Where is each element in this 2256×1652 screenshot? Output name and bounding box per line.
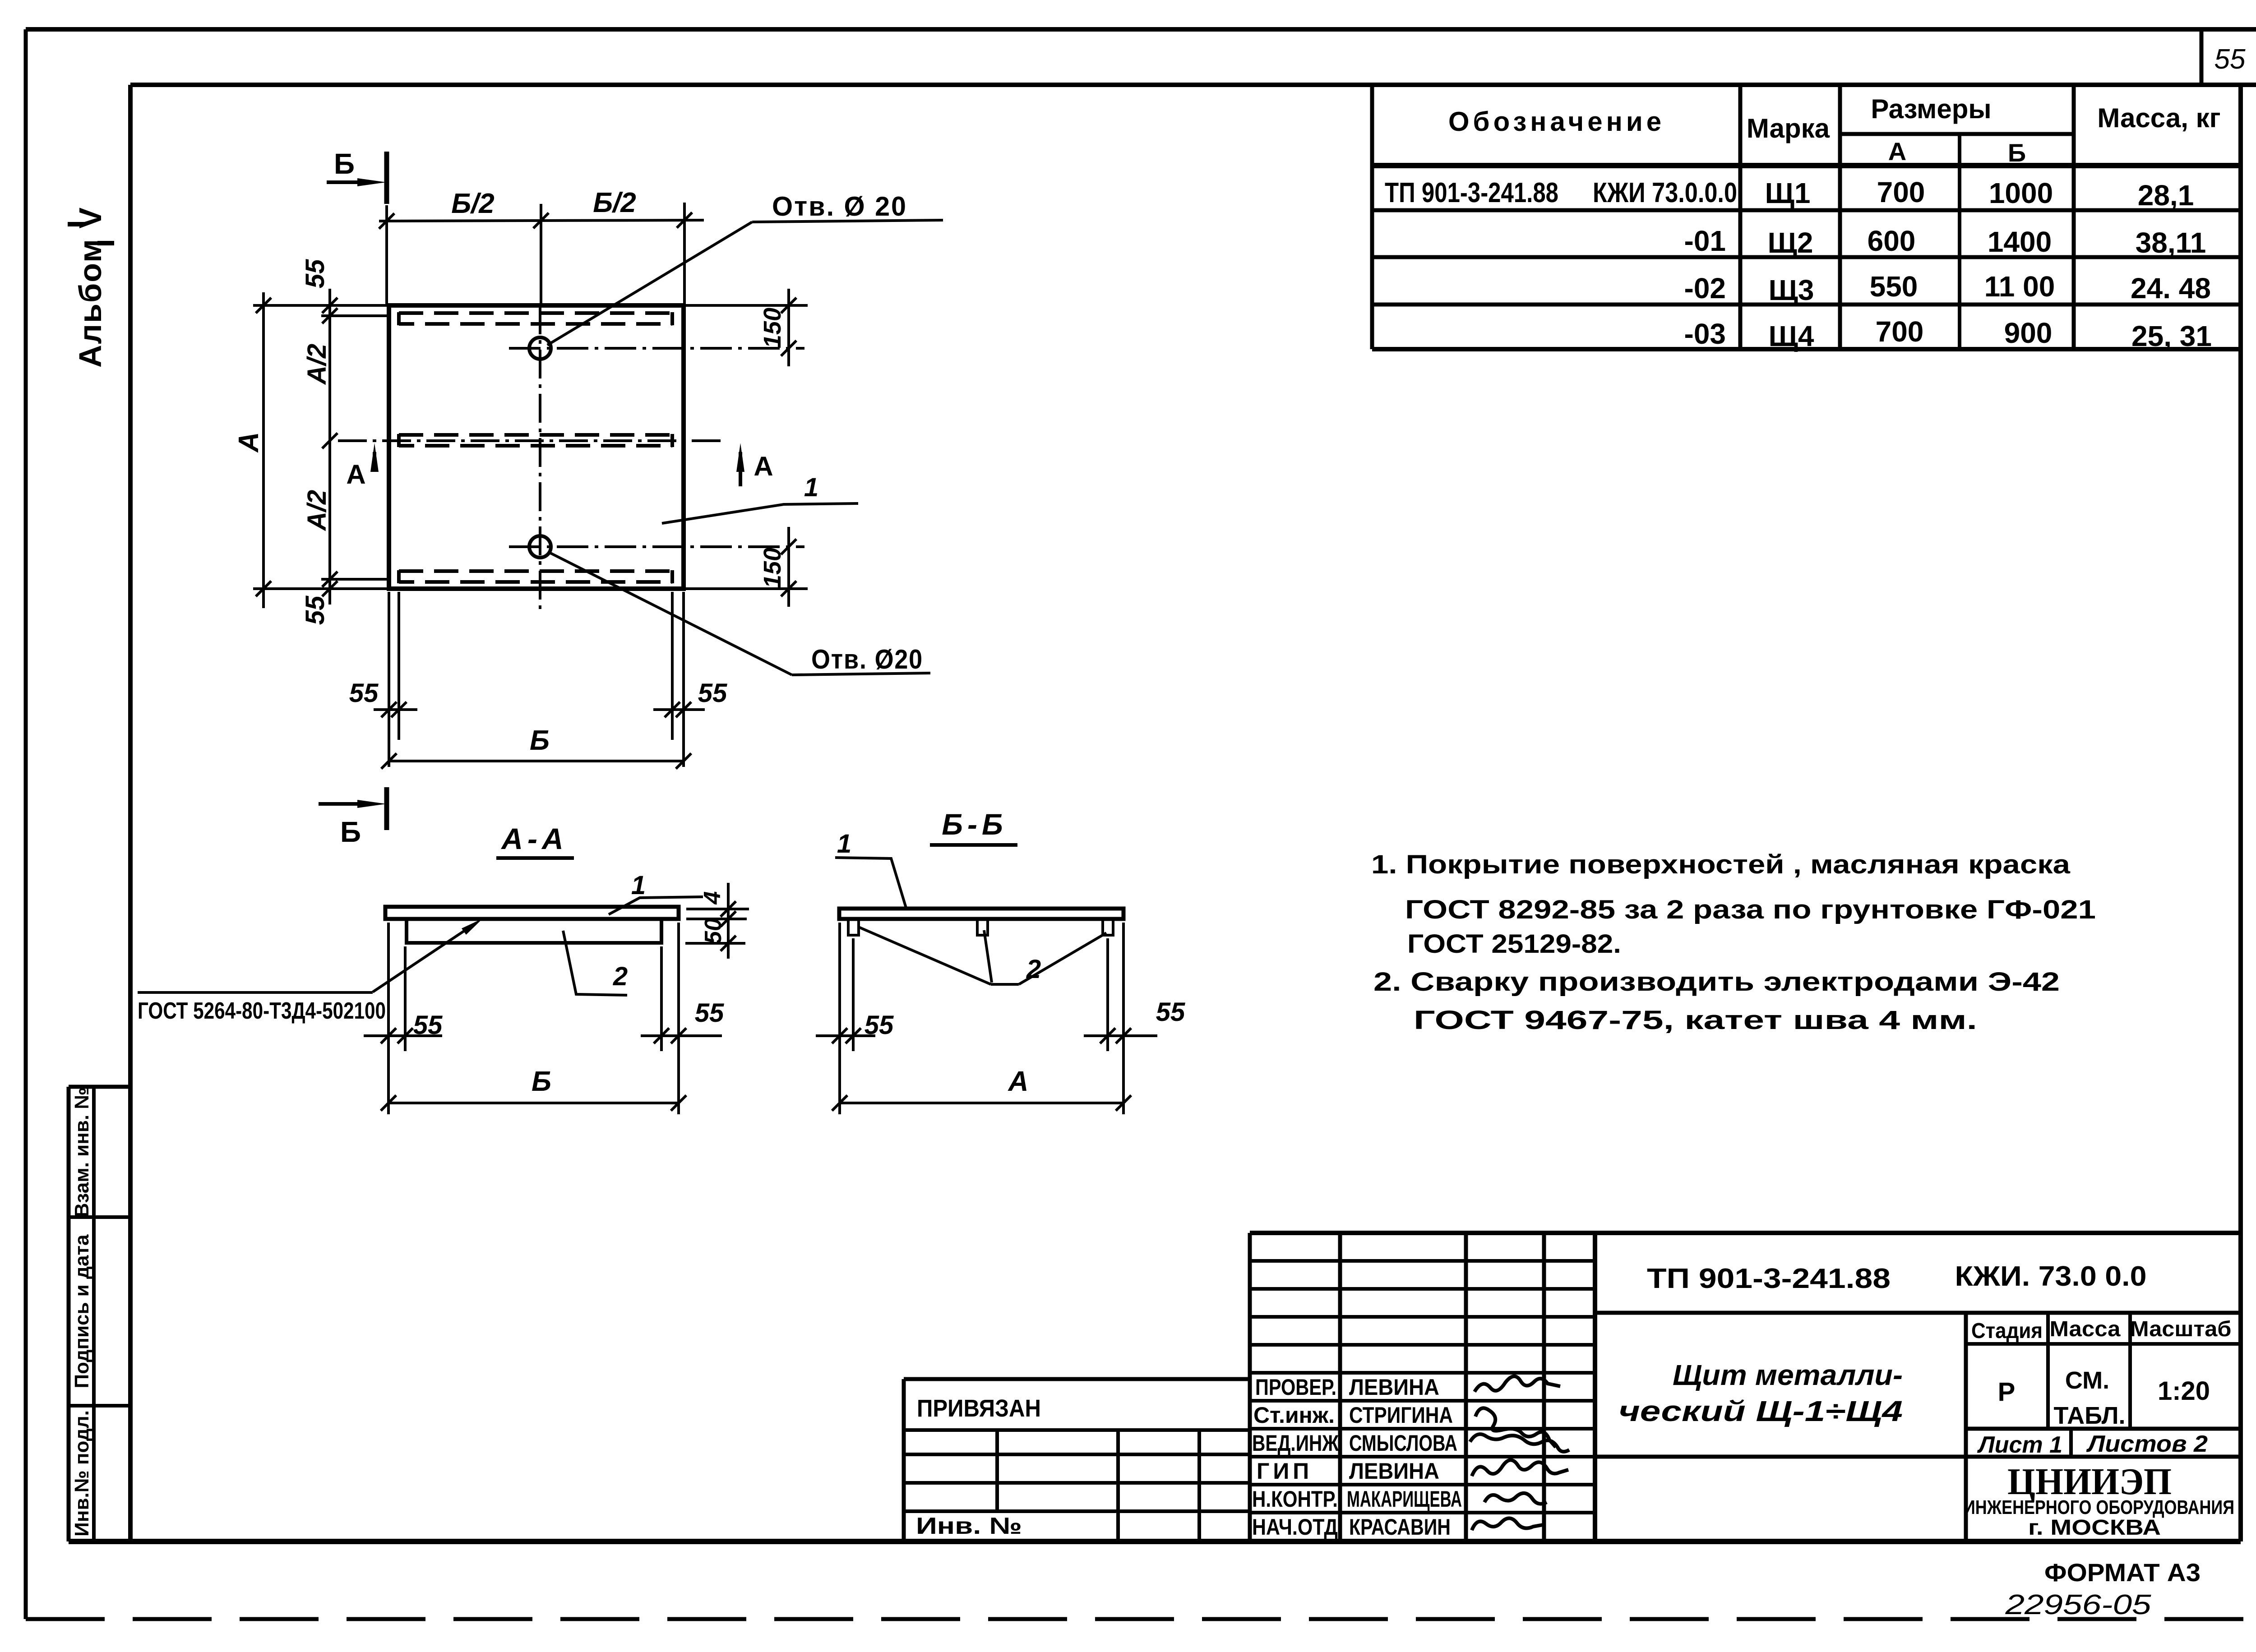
section marker Б top	[384, 152, 389, 204]
ПРИВЯЗАН row line 2	[904, 1453, 1250, 1456]
svg-text:ПРИВЯЗАН: ПРИВЯЗАН	[917, 1395, 1041, 1422]
svg-text:А/2: А/2	[302, 344, 332, 385]
grid verticals	[1248, 1233, 1252, 1541]
leader item 2 middle branch	[984, 930, 992, 983]
svg-text:Альбом V: Альбом V	[73, 207, 108, 368]
rib tab 2 (Б-Б)	[977, 919, 988, 935]
tick Б left	[381, 753, 397, 769]
tick aБ right	[671, 1095, 686, 1111]
svg-text:55: 55	[349, 678, 379, 708]
svg-text:Лист 1: Лист 1	[1977, 1432, 2062, 1458]
svg-text:НАЧ.ОТД: НАЧ.ОТД	[1252, 1514, 1338, 1540]
svg-text:1400: 1400	[1988, 226, 2052, 258]
tick 150u top	[781, 298, 796, 313]
table col line Обозначение/Марка	[1738, 85, 1743, 349]
hidden rib 1 left end	[397, 312, 401, 325]
svg-text:150: 150	[759, 308, 786, 348]
page number box	[2200, 29, 2204, 85]
svg-text:55: 55	[864, 1011, 894, 1040]
svg-text:ЛЕВИНА: ЛЕВИНА	[1349, 1375, 1439, 1400]
table col line А/Б	[1958, 134, 1961, 349]
table row line 3	[1372, 303, 2241, 307]
PLAN	[233, 148, 943, 848]
chain tick bottom edge	[322, 581, 337, 596]
title underline	[930, 843, 1017, 847]
dim Б line (А-А)	[388, 1102, 679, 1104]
svg-text:55: 55	[695, 998, 724, 1028]
chain tick rib1 axis	[322, 308, 337, 323]
stage col divider 2	[2128, 1313, 2132, 1429]
signature 2	[1475, 1408, 1556, 1447]
hidden rib 1 right end	[670, 312, 674, 325]
svg-text:Б: Б	[2008, 138, 2026, 167]
inner frame left	[128, 85, 133, 1541]
ПРИВЯЗАН col c	[1197, 1430, 1201, 1541]
tick b55R b	[676, 702, 691, 717]
tick aБ left	[381, 1095, 396, 1111]
SECTION-BB	[816, 808, 1185, 1114]
svg-text:ЛЕВИНА: ЛЕВИНА	[1349, 1458, 1439, 1484]
table col line Размеры/Масса	[2072, 85, 2076, 349]
hole upper Отв. Ø20	[529, 337, 551, 359]
svg-text:КРАСАВИН: КРАСАВИН	[1349, 1514, 1451, 1540]
hidden rib 3 left end	[397, 570, 401, 583]
plate (section А-А)	[385, 907, 679, 919]
svg-text:ТП 901-3-241.88: ТП 901-3-241.88	[1647, 1263, 1891, 1294]
svg-text:-01: -01	[1684, 225, 1726, 257]
tick b55L a	[381, 702, 397, 717]
chain tick center	[322, 433, 337, 448]
extension bottom edge left	[253, 587, 395, 590]
svg-text:Н.КОНТР.: Н.КОНТР.	[1252, 1486, 1338, 1512]
inner frame right	[2238, 85, 2243, 1541]
extension mid x=1199	[540, 204, 542, 305]
svg-text:Б-Б: Б-Б	[942, 808, 1007, 841]
hidden rib 3 right end	[670, 570, 674, 583]
svg-text:1. Покрытие поверхностей , мас: 1. Покрытие поверхностей , масляная крас…	[1371, 850, 2071, 879]
lower hole axis	[509, 545, 804, 548]
svg-text:Размеры: Размеры	[1871, 94, 1991, 124]
tick 150l top	[781, 539, 796, 554]
svg-text:Подпись и дата: Подпись и дата	[71, 1234, 93, 1388]
tick a55R a	[654, 1028, 669, 1043]
tick a55L b	[398, 1028, 413, 1043]
panel plate outline (plan)	[389, 305, 684, 589]
svg-text:2. Сварку производить электрод: 2. Сварку производить электродами Э-42	[1373, 967, 2060, 997]
svg-text:ТАБЛ.: ТАБЛ.	[2054, 1402, 2126, 1429]
svg-text:г. МОСКВА: г. МОСКВА	[2028, 1516, 2161, 1540]
svg-text:КЖИ. 73.0 0.0: КЖИ. 73.0 0.0	[1955, 1261, 2147, 1292]
svg-text:ГОСТ 25129-82.: ГОСТ 25129-82.	[1407, 929, 1621, 959]
svg-text:А: А	[1888, 137, 1906, 166]
table col line Марка/Размеры	[1838, 85, 1842, 349]
svg-text:Б: Б	[340, 816, 361, 848]
signature 1	[1475, 1376, 1560, 1392]
svg-text:Щ2: Щ2	[1768, 226, 1813, 259]
svg-text:Отв. Ø20: Отв. Ø20	[811, 644, 923, 674]
hidden rib 3 top line	[399, 569, 672, 573]
svg-text:900: 900	[2004, 317, 2053, 349]
hole lower Отв. Ø20	[529, 536, 551, 558]
svg-text:А: А	[1008, 1066, 1029, 1097]
upper hole axis	[509, 347, 804, 350]
ext tab3 axis	[1106, 938, 1109, 1051]
callout upper underline	[752, 220, 943, 222]
sidebar strip left edge	[67, 1087, 71, 1541]
svg-text:А: А	[233, 432, 264, 453]
tick А top	[256, 298, 271, 313]
svg-text:55: 55	[2214, 44, 2246, 75]
svg-text:Взам. инв. №: Взам. инв. №	[71, 1087, 93, 1218]
stage values bottom	[1966, 1427, 2241, 1431]
ПРИВЯЗАН col a	[995, 1430, 999, 1511]
grid row lines	[1250, 1259, 1595, 1263]
NOTES	[1371, 850, 2096, 1035]
leader item 2 left branch	[859, 927, 991, 984]
leader item 1 (Б-Б)	[835, 858, 906, 908]
signature 6	[1472, 1518, 1543, 1530]
svg-text:Инв. №: Инв. №	[916, 1513, 1022, 1539]
bottom ext rib left end	[398, 592, 400, 740]
svg-text:1000: 1000	[1989, 177, 2053, 209]
bottom dim Б line	[389, 760, 684, 762]
table line under Размеры	[1840, 132, 2074, 136]
tick 4 top	[721, 901, 736, 917]
svg-text:Масса, кг: Масса, кг	[2097, 103, 2220, 133]
sidebar divider 2	[69, 1404, 130, 1407]
hidden rib 3 bottom line	[399, 580, 672, 584]
ПРИВЯЗАН row line 1	[904, 1428, 1250, 1432]
bottom ext plate right edge	[682, 592, 685, 767]
leader item 1 (А-А)	[609, 897, 703, 914]
svg-text:А: А	[346, 459, 365, 489]
table header bottom line	[1372, 163, 2241, 168]
rib (section А-А)	[407, 919, 661, 943]
tick top dim mid	[533, 213, 549, 228]
svg-text:1: 1	[631, 871, 646, 900]
extension right x=1517	[683, 203, 686, 305]
svg-text:700: 700	[1876, 315, 1924, 348]
vertical divider title/stage	[1964, 1313, 1968, 1541]
svg-text:55: 55	[1156, 997, 1185, 1027]
weld label overline	[138, 991, 373, 994]
ext plate right edge (Б-Б)	[1122, 923, 1125, 1114]
svg-text:А-А: А-А	[500, 822, 568, 855]
callout Отв. Ø20 lower leader	[549, 552, 792, 675]
svg-text:2: 2	[1026, 955, 1041, 984]
outer border top	[26, 27, 2256, 32]
svg-text:4: 4	[699, 891, 726, 904]
tick 4/50 mid	[721, 911, 736, 927]
svg-text:150: 150	[759, 548, 786, 588]
table bottom line	[1372, 347, 2241, 351]
svg-text:ГИП: ГИП	[1257, 1458, 1313, 1484]
ext rib bottom right	[685, 942, 745, 945]
svg-text:Отв. Ø 20: Отв. Ø 20	[772, 191, 907, 221]
svg-text:25, 31: 25, 31	[2131, 320, 2212, 352]
tick 150u bottom	[781, 341, 796, 356]
svg-text:Масштаб: Масштаб	[2130, 1317, 2232, 1341]
svg-text:А/2: А/2	[302, 490, 332, 531]
outer border left	[24, 29, 28, 1619]
tick 50 bottom	[721, 936, 736, 951]
svg-text:1:20: 1:20	[2158, 1376, 2210, 1406]
svg-text:22956-05: 22956-05	[2005, 1589, 2151, 1620]
extension rib3 axis	[321, 578, 387, 581]
svg-text:Р: Р	[1998, 1377, 2016, 1407]
title block top edge	[1250, 1231, 2241, 1235]
svg-text:11 00: 11 00	[1984, 270, 2055, 303]
svg-text:2: 2	[613, 962, 628, 991]
dim А line (Б-Б)	[840, 1102, 1123, 1104]
bottom ext plate left edge	[388, 592, 390, 767]
svg-text:Б/2: Б/2	[451, 188, 495, 219]
svg-text:ГОСТ 5264-80-Т3Д4-502100: ГОСТ 5264-80-Т3Д4-502100	[138, 998, 386, 1024]
svg-text:28,1: 28,1	[2138, 179, 2194, 212]
leader item 2 bottom segment	[991, 983, 1019, 986]
svg-text:Б: Б	[334, 148, 355, 180]
weld leader arrowhead	[462, 918, 483, 935]
tick bА right	[1116, 1095, 1131, 1111]
horizontal centerline	[338, 439, 721, 442]
dimension А overall line	[262, 292, 265, 608]
svg-text:МАКАРИЩЕВА: МАКАРИЩЕВА	[1347, 1486, 1462, 1512]
ext bottom edge right	[686, 587, 808, 590]
hidden rib 2 bottom line	[399, 444, 672, 448]
top dimension line Б/2 Б/2	[379, 220, 704, 221]
dim 55 left line (Б-Б)	[816, 1034, 875, 1037]
svg-text:Стадия: Стадия	[1971, 1319, 2043, 1343]
table row line 1	[1372, 208, 2241, 212]
ТП band bottom line	[1595, 1311, 2241, 1315]
svg-text:Щит металли-: Щит металли-	[1673, 1359, 1903, 1391]
TITLEBLOCK	[904, 1233, 2241, 1620]
inner frame top	[130, 83, 2256, 87]
rib tab 3 (Б-Б)	[1103, 919, 1113, 935]
ext top edge right	[686, 304, 808, 307]
ext plate right edge	[677, 923, 680, 1114]
inner frame bottom	[69, 1539, 2241, 1544]
svg-text:-02: -02	[1684, 272, 1726, 305]
plate (section Б-Б)	[839, 909, 1123, 919]
signature 3	[1470, 1434, 1569, 1452]
dimension chain line left	[328, 289, 331, 605]
ПРИВЯЗАН row line 4	[904, 1509, 1250, 1513]
extension rib1 axis	[321, 314, 387, 317]
svg-text:СТРИГИНА: СТРИГИНА	[1349, 1403, 1453, 1428]
svg-text:-03: -03	[1684, 318, 1726, 350]
ext rib right end	[660, 946, 663, 1051]
svg-text:Б/2: Б/2	[593, 187, 636, 218]
svg-text:Марка: Марка	[1747, 113, 1830, 143]
svg-text:55: 55	[698, 678, 727, 708]
tick Б right	[676, 753, 691, 769]
svg-text:СМ.: СМ.	[2065, 1367, 2109, 1394]
tick b55L b	[846, 1028, 861, 1043]
bottom dim 55 right line	[653, 708, 705, 711]
svg-text:Инв.№ подл.: Инв.№ подл.	[71, 1410, 93, 1537]
tick bА left	[832, 1095, 847, 1111]
bottom dim 55 left line	[374, 708, 417, 711]
svg-text:А: А	[754, 451, 773, 481]
title underline	[496, 856, 574, 860]
tick a55L a	[381, 1028, 396, 1043]
callout Отв. Ø20 upper leader	[547, 222, 752, 345]
svg-text:Масса: Масса	[2050, 1317, 2121, 1341]
outer border bottom (dashed)	[26, 1617, 2256, 1621]
svg-text:ГОСТ 9467-75, катет шва 4 мм.: ГОСТ 9467-75, катет шва 4 мм.	[1414, 1006, 1977, 1035]
dim 4/50 vertical line	[727, 883, 730, 959]
svg-text:ГОСТ 8292-85 за 2 раза по грун: ГОСТ 8292-85 за 2 раза по грунтовке ГФ-0…	[1405, 895, 2096, 924]
overbar of V	[68, 222, 84, 226]
svg-text:ческий Щ-1÷Щ4: ческий Щ-1÷Щ4	[1618, 1395, 1903, 1427]
callout lower underline	[792, 673, 930, 675]
svg-text:КЖИ 73.0.0.0: КЖИ 73.0.0.0	[1593, 177, 1737, 208]
right dim 150 lower line	[787, 527, 790, 607]
hidden rib 2 top line	[399, 433, 672, 437]
sidebar divider 1	[69, 1215, 130, 1219]
ext plate left edge	[387, 923, 390, 1114]
svg-text:Щ3: Щ3	[1769, 274, 1814, 306]
SECTION-AA	[138, 822, 749, 1114]
tick b55R a	[665, 702, 680, 717]
hidden rib 1 bottom line	[399, 322, 672, 326]
vertical centerline	[539, 305, 541, 614]
dim 55 right line	[641, 1034, 722, 1037]
ПРИВЯЗАН col b	[1116, 1430, 1120, 1541]
table left edge	[1370, 85, 1374, 349]
svg-text:50: 50	[700, 918, 726, 944]
svg-text:55: 55	[413, 1011, 443, 1040]
extension left x=857	[385, 205, 388, 305]
svg-text:Щ4: Щ4	[1769, 320, 1814, 352]
svg-text:ПРОВЕР.: ПРОВЕР.	[1255, 1375, 1336, 1400]
svg-text:Б: Б	[532, 1066, 551, 1097]
svg-text:700: 700	[1877, 176, 1925, 208]
tick b55R a	[1100, 1028, 1115, 1043]
svg-text:Б: Б	[530, 725, 550, 756]
leader item 2 (А-А)	[563, 931, 627, 995]
ext plate top right	[686, 908, 749, 910]
tick a55R b	[671, 1028, 686, 1043]
stage col divider 1	[2046, 1313, 2050, 1429]
chain tick top edge	[322, 298, 337, 313]
bottom ext rib right end	[671, 592, 674, 740]
tick b55L b	[391, 702, 407, 717]
svg-text:Ст.инж.: Ст.инж.	[1253, 1403, 1335, 1428]
stage header bottom	[1966, 1342, 2241, 1346]
sidebar strip top edge	[69, 1085, 130, 1089]
ext plate bottom right	[686, 918, 747, 920]
svg-text:Щ1: Щ1	[1765, 177, 1811, 209]
section marker А left	[373, 452, 376, 470]
leader item 2 right branch	[1019, 933, 1106, 984]
extension top edge left	[253, 304, 395, 307]
hidden rib 2 right end	[670, 434, 674, 447]
rib tab 1 (Б-Б)	[848, 919, 859, 935]
dim 55 right line (Б-Б)	[1084, 1034, 1157, 1037]
ext rib left end	[404, 946, 407, 1051]
svg-text:СМЫСЛОВА: СМЫСЛОВА	[1349, 1431, 1457, 1456]
hidden rib 2 left end	[397, 434, 401, 447]
svg-text:55: 55	[300, 259, 330, 288]
dim 55 left line	[364, 1034, 442, 1037]
svg-text:1: 1	[837, 829, 851, 858]
svg-text:ФОРМАТ А3: ФОРМАТ А3	[2044, 1558, 2201, 1587]
svg-text:38,11: 38,11	[2136, 226, 2206, 259]
tick top dim right	[677, 212, 692, 228]
svg-text:ВЕД.ИНЖ: ВЕД.ИНЖ	[1252, 1431, 1339, 1456]
signature 5	[1484, 1493, 1547, 1504]
leader item 1 (plan)	[662, 503, 858, 523]
ПРИВЯЗАН block left	[902, 1379, 906, 1541]
svg-text:550: 550	[1870, 270, 1918, 303]
tick b55L a	[832, 1028, 847, 1043]
tick 150l bottom	[781, 581, 796, 596]
tick А bottom	[256, 581, 271, 596]
ext tab1 axis	[852, 938, 855, 1051]
svg-text:ТП 901-3-241.88: ТП 901-3-241.88	[1385, 177, 1558, 208]
svg-text:600: 600	[1868, 225, 1916, 257]
signature 4	[1472, 1460, 1568, 1476]
tick b55R b	[1116, 1028, 1131, 1043]
weld leader line	[373, 923, 476, 992]
ext plate left edge (Б-Б)	[838, 923, 841, 1114]
svg-text:1: 1	[804, 473, 818, 502]
svg-text:Обозначение: Обозначение	[1448, 106, 1665, 137]
hidden rib 1 top line	[399, 311, 672, 315]
sheet band bottom	[1595, 1455, 2241, 1459]
underbar of V	[97, 241, 114, 245]
svg-text:24. 48: 24. 48	[2131, 272, 2211, 305]
ПРИВЯЗАН block top	[904, 1377, 1250, 1381]
section marker А right	[739, 452, 742, 486]
sheet band divider	[2069, 1429, 2073, 1457]
chain tick rib3 axis	[322, 572, 337, 587]
right dim 150 upper line	[787, 289, 790, 366]
svg-text:Листов 2: Листов 2	[2086, 1431, 2208, 1457]
tick top dim left	[379, 213, 394, 229]
ПРИВЯЗАН row line 3	[904, 1481, 1250, 1485]
svg-text:ИНЖЕНЕРНОГО ОБОРУДОВАНИЯ: ИНЖЕНЕРНОГО ОБОРУДОВАНИЯ	[1964, 1496, 2234, 1518]
table row line 2	[1372, 255, 2241, 259]
sidebar column divider	[92, 1087, 96, 1541]
section marker Б bottom	[384, 787, 389, 830]
svg-text:55: 55	[300, 595, 330, 625]
TABLE	[1372, 85, 2241, 352]
